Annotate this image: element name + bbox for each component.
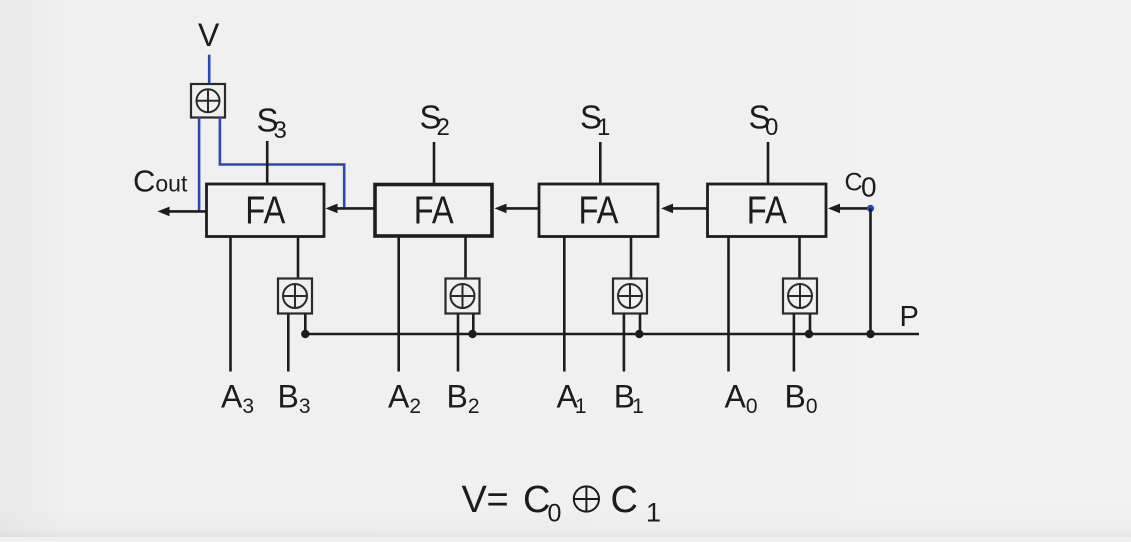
- svg-text:0: 0: [548, 500, 562, 528]
- svg-text:C: C: [611, 479, 638, 521]
- svg-text:0: 0: [765, 114, 778, 141]
- xor gate X2: [446, 279, 480, 314]
- wire P bus: [305, 333, 919, 336]
- wire X0 stub to P: [809, 314, 812, 335]
- svg-text:1: 1: [646, 498, 661, 528]
- wire B1 below xor X1: [623, 314, 626, 372]
- svg-text:FA: FA: [414, 190, 454, 233]
- wire V to overflow XOR (blue): [208, 55, 211, 84]
- svg-text:FA: FA: [245, 190, 285, 233]
- node X2-P junction: [468, 330, 476, 338]
- svg-text:=: =: [487, 479, 509, 521]
- wire S0: [767, 142, 770, 184]
- full adder FA2: [375, 185, 492, 237]
- wire XV right input to carry C3 line (blue): [220, 117, 344, 207]
- wire C0 down to P line: [869, 208, 872, 334]
- wire A1 input: [563, 237, 566, 372]
- svg-text:FA: FA: [747, 190, 787, 233]
- xor gate XV (overflow detector): [191, 84, 225, 118]
- svg-text:0: 0: [861, 172, 877, 203]
- wire carry C0 into FA0 with arrow: [828, 204, 871, 214]
- wire X2 stub to P: [472, 314, 475, 335]
- full adder FA0: [708, 184, 827, 237]
- full adder FA1: [539, 184, 658, 237]
- svg-text:1: 1: [597, 114, 610, 141]
- wire S2: [433, 142, 436, 184]
- wire B2 below xor X2: [457, 314, 460, 372]
- wire A3 input: [229, 237, 232, 372]
- svg-text:FA: FA: [579, 190, 619, 233]
- xor gate X0: [783, 279, 817, 314]
- wire Cout with arrow: [158, 207, 207, 217]
- wire B1 from FA1 to xor X1: [630, 237, 633, 279]
- full adder FA3: [207, 184, 325, 237]
- wire B0 from FA0 to xor X0: [798, 237, 801, 279]
- wire B2 from FA2 to xor X2: [464, 237, 467, 279]
- wire A0 input: [727, 237, 730, 372]
- wire S1: [599, 142, 602, 184]
- wire B3 below xor X3: [287, 314, 290, 372]
- wire carry C1 from FA0 to FA1 with arrow: [661, 204, 708, 214]
- svg-text:3: 3: [274, 117, 287, 144]
- node X3-P junction: [301, 330, 309, 338]
- wire S3: [266, 141, 269, 184]
- wire X1 stub to P: [639, 314, 642, 335]
- xor gate X3: [278, 279, 312, 314]
- svg-text:C: C: [845, 169, 863, 197]
- wire B3 from FA3 to xor X3: [297, 237, 300, 279]
- svg-text:2: 2: [437, 114, 450, 141]
- wire XV left output down to Cout line (blue): [198, 117, 201, 211]
- equation V = C0 xor C1: [462, 479, 662, 528]
- xor gate X1: [613, 279, 647, 314]
- wire A2 input: [397, 237, 400, 372]
- svg-text:C: C: [523, 479, 550, 521]
- svg-text:V: V: [198, 17, 220, 53]
- svg-text:P: P: [900, 301, 919, 333]
- node X0-P junction: [805, 330, 813, 338]
- wire carry C2 from FA1 to FA2 with arrow: [495, 204, 540, 214]
- equation xor symbol: [574, 486, 599, 511]
- node C0-P junction: [866, 330, 874, 338]
- svg-text:V: V: [462, 479, 488, 521]
- wire X3 stub to P: [304, 314, 307, 335]
- node C0 junction (blue): [867, 205, 874, 212]
- wire B0 below xor X0: [793, 314, 796, 372]
- wire carry C3 from FA2 to FA3 with arrow: [326, 204, 376, 214]
- node X1-P junction: [635, 330, 643, 338]
